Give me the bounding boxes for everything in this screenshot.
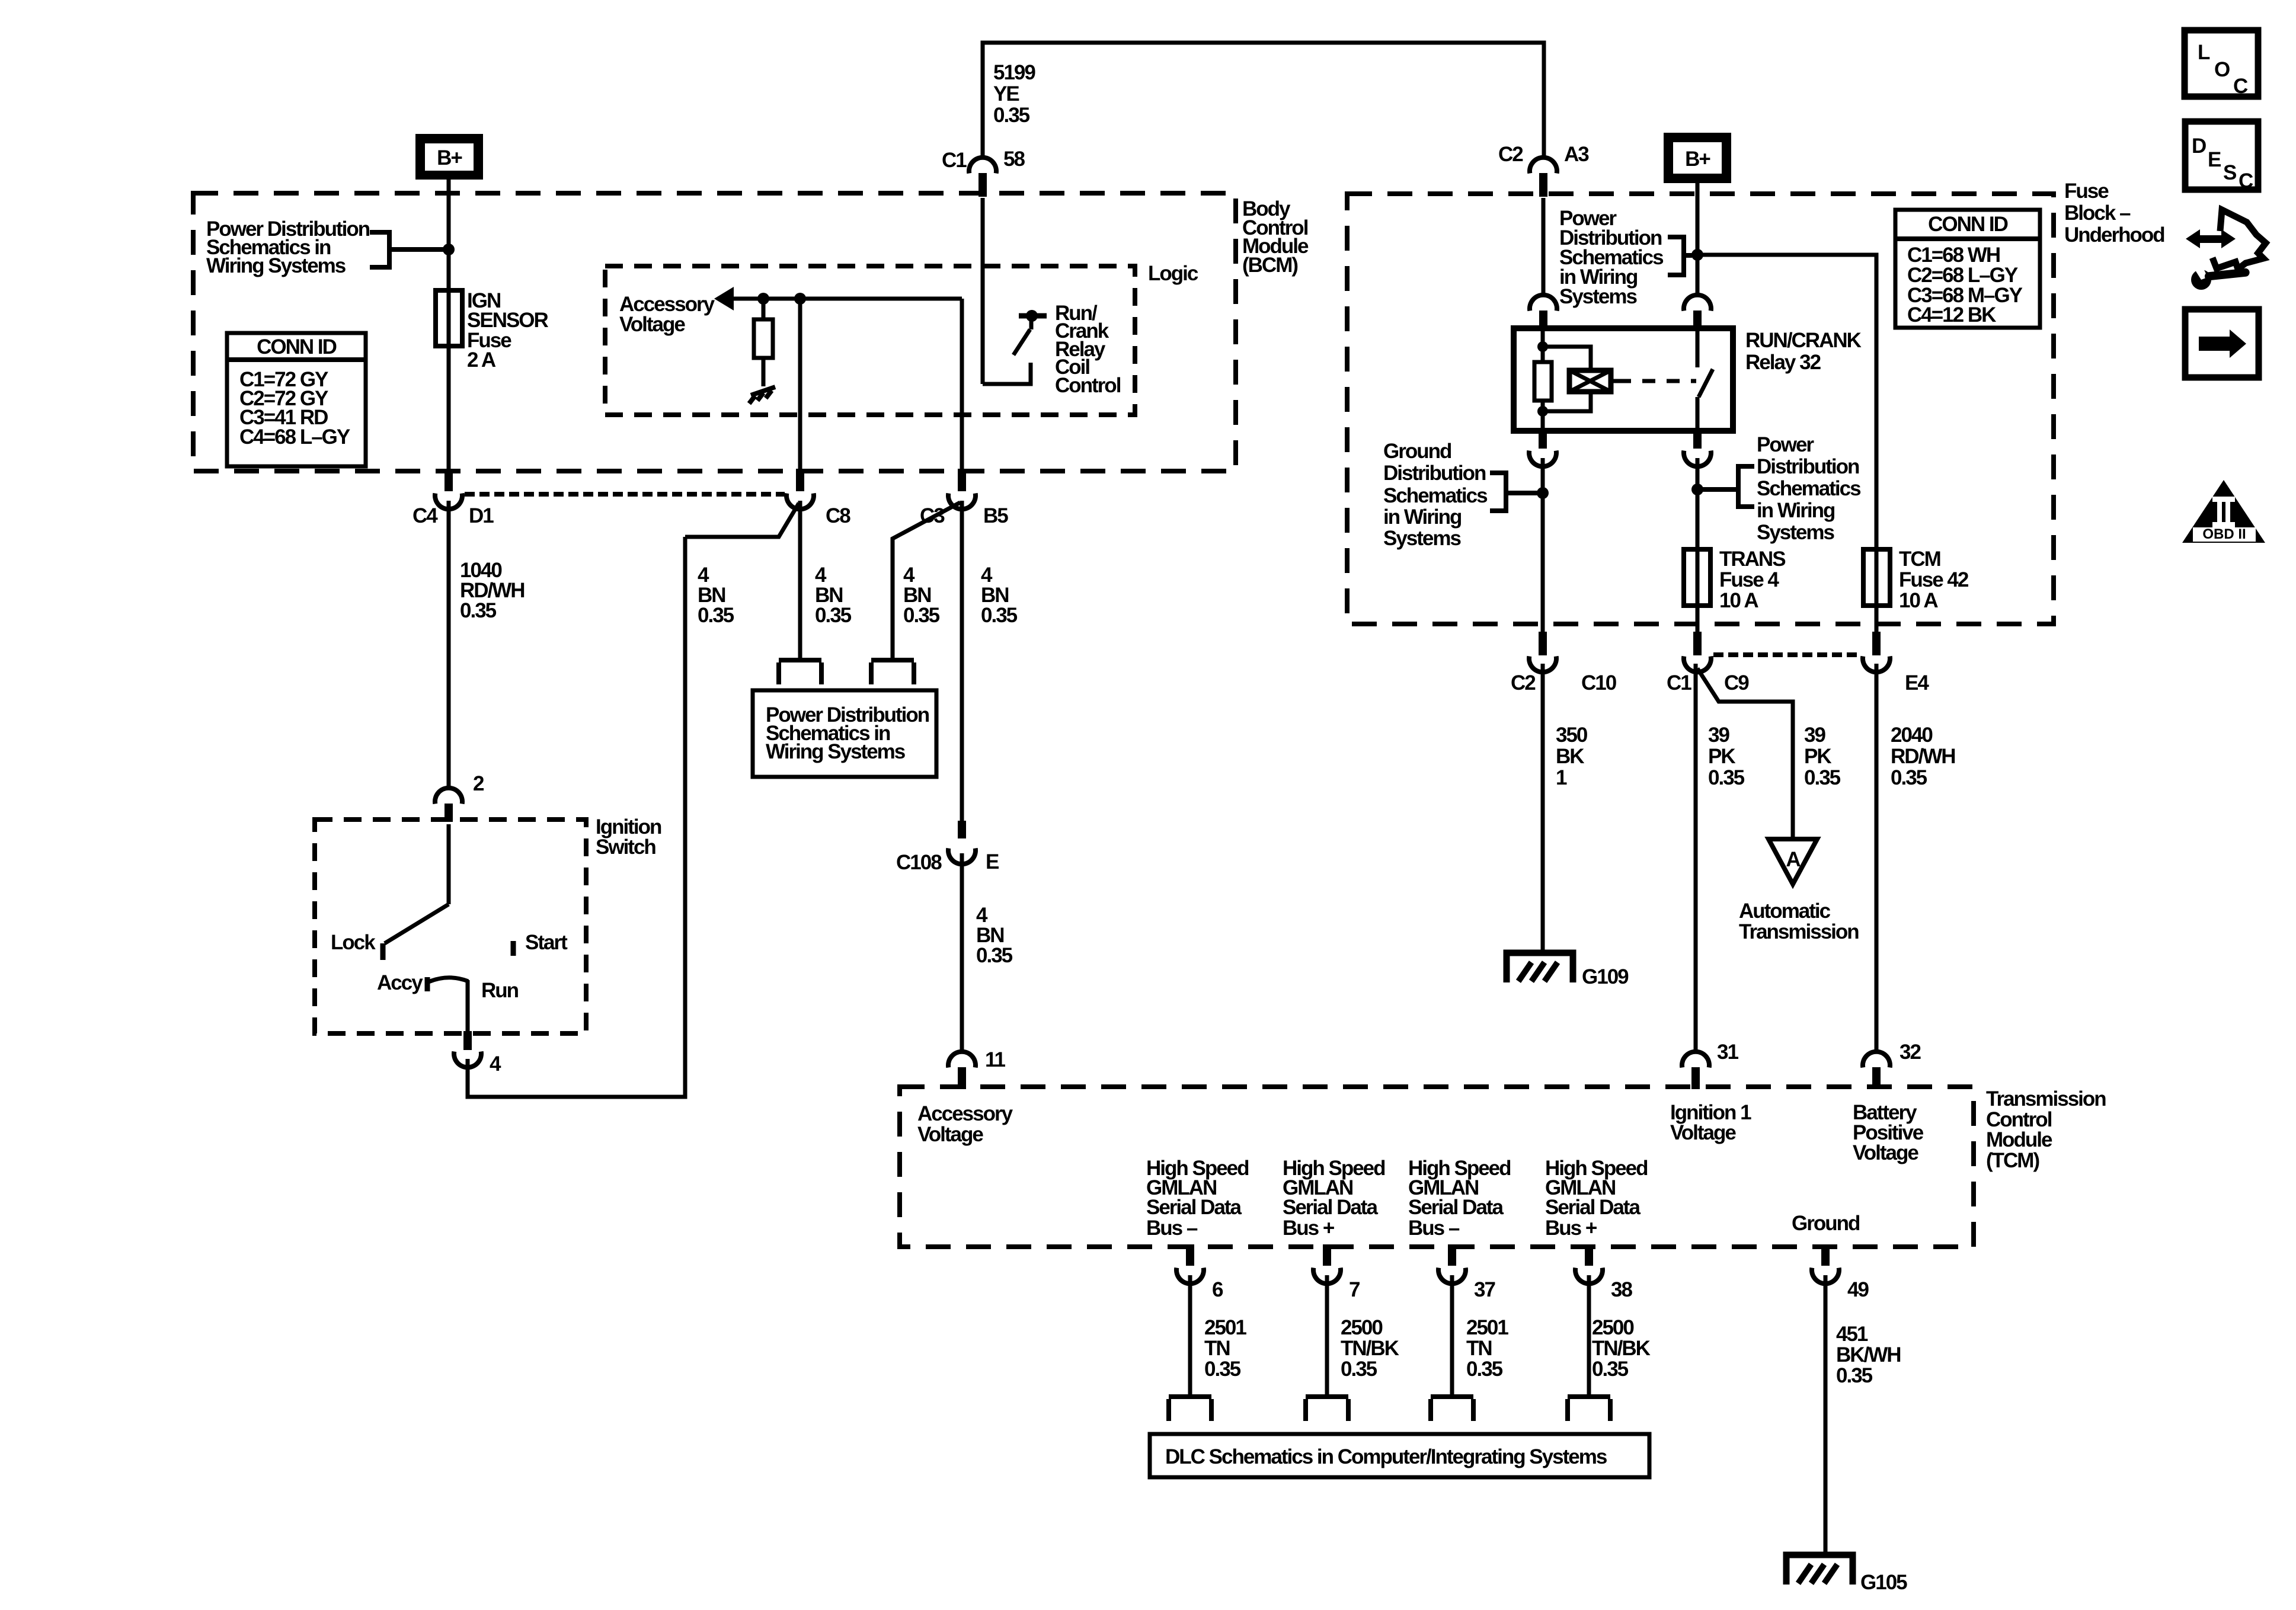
- table: CONN ID (BCM): [227, 333, 366, 466]
- svg-text:Voltage: Voltage: [1670, 1121, 1736, 1144]
- wire C2/A3 to relay coil: [1542, 198, 1546, 295]
- relay switch: [1697, 328, 1713, 431]
- connector C1/58 (BCM top): [942, 148, 1025, 197]
- connector relay switch out (bottom right): [1684, 428, 1711, 466]
- fuse: IGN SENSOR Fuse 2 A: [436, 289, 549, 372]
- connector 7 (TCM bottom): [1313, 1244, 1360, 1301]
- svg-text:Lock: Lock: [331, 931, 376, 954]
- fuse block box: Fuse Block - Underhood: [1347, 194, 2054, 624]
- svg-text:CONN ID: CONN ID: [1928, 213, 2008, 236]
- svg-text:RD/WH: RD/WH: [1891, 745, 1955, 768]
- note box: Power Distribution Schematics in Wiring Systems: [753, 690, 936, 777]
- svg-text:0.35: 0.35: [1341, 1358, 1377, 1381]
- svg-text:0.35: 0.35: [976, 944, 1013, 967]
- svg-text:Bus –: Bus –: [1408, 1217, 1460, 1240]
- svg-text:in Wiring: in Wiring: [1757, 499, 1835, 522]
- svg-text:E4: E4: [1905, 671, 1929, 694]
- svg-text:Bus –: Bus –: [1146, 1217, 1198, 1240]
- logic box (BCM Logic): [605, 266, 1135, 415]
- svg-text:39: 39: [1804, 724, 1825, 747]
- contact Accy: [425, 977, 430, 991]
- node accessory/resistor: [757, 293, 769, 305]
- svg-text:2 A: 2 A: [467, 348, 496, 372]
- svg-text:0.35: 0.35: [1836, 1364, 1873, 1387]
- connector C108/E (inline): [896, 821, 999, 874]
- fuse TCM Fuse 42 10 A: [1863, 548, 1969, 612]
- svg-text:S: S: [2223, 161, 2236, 184]
- wire 2500 TN/BK 0.35 (bus plus): [1327, 1275, 1399, 1397]
- svg-text:7: 7: [1349, 1278, 1360, 1301]
- svg-text:451: 451: [1836, 1323, 1868, 1346]
- connector 37 (TCM bottom): [1438, 1244, 1495, 1301]
- terminators GMLAN wires: [1169, 1397, 1211, 1421]
- svg-text:C10: C10: [1581, 671, 1617, 694]
- wire ignition feed into switch: [447, 824, 451, 904]
- label BCM: [1242, 197, 1309, 277]
- pin labels TCM: [917, 1101, 1924, 1235]
- labels High Speed GMLAN Serial Data Bus: [1146, 1157, 1648, 1240]
- wire B+ right down: [1696, 183, 1700, 295]
- svg-text:in Wiring: in Wiring: [1383, 505, 1462, 529]
- svg-text:Fuse 4: Fuse 4: [1719, 568, 1779, 591]
- wire 39 PK 0.35 branch to automatic transmission: [1697, 668, 1841, 838]
- connector C3/B5 (BCM bottom): [920, 469, 1008, 527]
- svg-text:350: 350: [1556, 724, 1588, 747]
- connector E4 (fuse block bottom): [1863, 632, 1929, 694]
- svg-text:BK/WH: BK/WH: [1836, 1343, 1901, 1366]
- wire B+ to TCM fuse: [1697, 255, 1876, 632]
- svg-text:O: O: [2214, 58, 2230, 81]
- wire relay switch to TRANS fuse: [1696, 458, 1700, 632]
- svg-text:C4: C4: [412, 504, 438, 527]
- svg-text:Systems: Systems: [1757, 521, 1835, 544]
- svg-text:Relay 32: Relay 32: [1745, 351, 1821, 374]
- svg-text:0.35: 0.35: [903, 604, 940, 627]
- connector row dotted line C4 to C8: [465, 492, 785, 497]
- svg-text:0.35: 0.35: [1466, 1358, 1503, 1381]
- svg-text:OBD II: OBD II: [2202, 526, 2246, 542]
- wire 2501 TN 0.35 (bus minus): [1190, 1275, 1246, 1397]
- svg-text:TCM: TCM: [1899, 548, 1940, 571]
- svg-text:Fuse: Fuse: [2064, 180, 2109, 203]
- svg-text:C1: C1: [942, 149, 967, 172]
- svg-text:Accy: Accy: [377, 971, 423, 994]
- svg-text:Wiring Systems: Wiring Systems: [766, 740, 906, 763]
- svg-text:5199: 5199: [993, 61, 1035, 84]
- connector C2/A3 (fuse block top): [1498, 143, 1589, 197]
- terminator C8 wire: [779, 660, 821, 684]
- svg-text:2501: 2501: [1204, 1316, 1246, 1339]
- icon OBD II: [2182, 480, 2265, 543]
- icon DESC: [2185, 121, 2258, 193]
- svg-text:Voltage: Voltage: [619, 313, 685, 336]
- svg-text:C9: C9: [1724, 671, 1749, 694]
- svg-text:D: D: [2192, 135, 2206, 158]
- wire B5 diagonal branch, 4 BN 0.35: [893, 502, 960, 660]
- off-page triangle A: Automatic Transmission: [1739, 839, 1859, 943]
- svg-text:10 A: 10 A: [1719, 589, 1758, 612]
- node: B+ feed junction: [443, 244, 455, 255]
- note: Power Distribution Schematics in Wiring Systems (BCM B+ feed): [206, 217, 443, 277]
- svg-text:10 A: 10 A: [1899, 589, 1938, 612]
- fuse TRANS Fuse 4 10 A: [1684, 548, 1785, 612]
- svg-text:TN: TN: [1204, 1337, 1230, 1360]
- wire B+ to IGN SENSOR fuse: [447, 180, 451, 469]
- svg-text:Bus +: Bus +: [1545, 1217, 1597, 1240]
- connector 31 (TCM): [1682, 1041, 1738, 1089]
- contact Start: [511, 941, 516, 956]
- wire Run to connector 4: [466, 980, 470, 1031]
- ground (logic): [749, 387, 775, 404]
- wire 2040 RD/WH 0.35: [1876, 664, 1955, 1051]
- svg-text:Systems: Systems: [1383, 527, 1462, 550]
- module box: Transmission Control Module (TCM): [900, 1087, 1974, 1247]
- table: CONN ID (fuse block): [1895, 210, 2040, 328]
- svg-text:C8: C8: [826, 504, 850, 527]
- ground G105: [1786, 1555, 1907, 1594]
- svg-text:B5: B5: [983, 504, 1008, 527]
- svg-text:C1: C1: [1667, 671, 1691, 694]
- svg-text:Voltage: Voltage: [1853, 1141, 1918, 1164]
- svg-text:Ground: Ground: [1383, 440, 1451, 463]
- svg-text:E: E: [986, 850, 999, 873]
- svg-text:Automatic: Automatic: [1739, 900, 1831, 923]
- svg-text:2500: 2500: [1592, 1316, 1634, 1339]
- svg-text:38: 38: [1611, 1278, 1632, 1301]
- svg-text:Switch: Switch: [596, 836, 655, 859]
- svg-text:0.35: 0.35: [1891, 766, 1927, 789]
- connector 2 (Ignition Switch): [435, 772, 484, 822]
- wire logic to B5: [960, 299, 964, 469]
- note box: DLC Schematics in Computer/Integrating Systems: [1150, 1434, 1649, 1477]
- wire C8 diagonal to accessory run: [685, 503, 799, 537]
- node power distribution (switched feed): [1691, 484, 1703, 495]
- svg-text:0.35: 0.35: [981, 604, 1018, 627]
- svg-text:YE: YE: [993, 82, 1019, 105]
- connector relay coil out (bottom left): [1529, 428, 1556, 466]
- svg-text:Wiring Systems: Wiring Systems: [206, 254, 346, 277]
- node B+/TCM fuse branch: [1691, 249, 1703, 261]
- connector C8 (BCM bottom): [786, 469, 850, 527]
- connector 32 (TCM): [1863, 1041, 1921, 1089]
- connector C1/C9 (fuse block bottom): [1667, 632, 1749, 694]
- svg-text:E: E: [2208, 148, 2221, 171]
- module box: Body Control Module (BCM): [193, 193, 1236, 471]
- svg-text:11: 11: [985, 1048, 1006, 1071]
- svg-text:C: C: [2239, 169, 2253, 193]
- svg-text:TRANS: TRANS: [1719, 548, 1785, 571]
- svg-text:32: 32: [1900, 1041, 1921, 1064]
- wire 1040 RD/WH 0.35: [449, 501, 525, 788]
- label 4 BN 0.35 (accessory run wire): [698, 564, 734, 627]
- wire logic to C8: [798, 299, 802, 469]
- connector C4/D1 (BCM): [412, 469, 494, 527]
- wire C108 to TCM pin 11, 4 BN 0.35: [962, 853, 1013, 1051]
- svg-text:39: 39: [1708, 724, 1729, 747]
- svg-text:49: 49: [1847, 1278, 1869, 1301]
- svg-text:0.35: 0.35: [1204, 1358, 1241, 1381]
- svg-text:Transmission: Transmission: [1986, 1087, 2106, 1110]
- svg-text:C2: C2: [1511, 671, 1536, 694]
- svg-text:2500: 2500: [1341, 1316, 1383, 1339]
- svg-text:Serial Data: Serial Data: [1146, 1196, 1242, 1219]
- connector relay switch pin (top right): [1684, 295, 1711, 328]
- svg-text:(BCM): (BCM): [1242, 254, 1297, 277]
- switch: Run/Crank Relay Coil Control: [983, 198, 1121, 397]
- svg-text:0.35: 0.35: [993, 104, 1030, 127]
- svg-text:Transmission: Transmission: [1739, 920, 1859, 943]
- connector row dotted line C1/C9 to E4: [1713, 652, 1861, 657]
- svg-text:TN: TN: [1466, 1337, 1492, 1360]
- icon LOC: [2185, 30, 2258, 98]
- svg-text:Serial Data: Serial Data: [1408, 1196, 1504, 1219]
- connector 38 (TCM bottom): [1575, 1244, 1632, 1301]
- svg-text:PK: PK: [1708, 745, 1735, 768]
- svg-text:(TCM): (TCM): [1986, 1149, 2039, 1172]
- note: Power Distribution Schematics in Wiring Systems (B+ feed): [1559, 207, 1692, 308]
- wire 350 BK 1: [1543, 664, 1588, 953]
- wire 5199 YE 0.35 top run: [983, 43, 1544, 157]
- svg-text:Control: Control: [1055, 374, 1121, 397]
- svg-text:G109: G109: [1582, 965, 1629, 988]
- connector 49 (TCM ground): [1812, 1244, 1869, 1301]
- svg-text:0.35: 0.35: [1592, 1358, 1629, 1381]
- icon arrow right: [2185, 309, 2259, 377]
- svg-text:Run: Run: [481, 979, 519, 1002]
- svg-text:Serial Data: Serial Data: [1283, 1196, 1378, 1219]
- relay box: RUN/CRANK Relay 32: [1514, 328, 1862, 431]
- terminator B5 branch: [871, 660, 914, 684]
- svg-text:Distribution: Distribution: [1757, 455, 1859, 478]
- contact Run and rotor arc: [428, 978, 468, 982]
- svg-text:Start: Start: [525, 931, 568, 954]
- node accessory/C8: [794, 293, 806, 305]
- svg-text:Power: Power: [1757, 433, 1814, 456]
- svg-text:Systems: Systems: [1559, 285, 1638, 308]
- note: Power Distribution Schematics in Wiring Systems (switched feed): [1697, 433, 1861, 544]
- wire accessory voltage from pin 4 to C8 branch: [468, 537, 685, 1097]
- svg-text:37: 37: [1474, 1278, 1495, 1301]
- svg-text:0.35: 0.35: [698, 604, 734, 627]
- svg-text:Schematics: Schematics: [1757, 477, 1861, 500]
- svg-text:1: 1: [1556, 766, 1567, 789]
- svg-text:G105: G105: [1860, 1571, 1907, 1594]
- svg-text:0.35: 0.35: [460, 599, 497, 622]
- resistor (logic pull-down): [754, 299, 773, 386]
- svg-text:A3: A3: [1564, 143, 1589, 166]
- svg-text:0.35: 0.35: [1804, 766, 1841, 789]
- svg-text:58: 58: [1003, 148, 1025, 171]
- svg-text:C: C: [2233, 75, 2248, 98]
- svg-text:L: L: [2198, 41, 2210, 64]
- power symbol B+ (right): [1664, 133, 1731, 183]
- connector C2/C10 (fuse block bottom): [1511, 632, 1617, 694]
- wire 451 BK/WH 0.35: [1825, 1275, 1901, 1555]
- svg-text:Ground: Ground: [1792, 1212, 1860, 1235]
- wire 2501 TN 0.35 (bus minus 2): [1452, 1275, 1508, 1397]
- svg-text:4: 4: [490, 1052, 501, 1076]
- svg-text:0.35: 0.35: [815, 604, 852, 627]
- contact Lock: [380, 943, 386, 960]
- svg-text:Fuse 42: Fuse 42: [1899, 568, 1969, 591]
- svg-text:D1: D1: [469, 504, 494, 527]
- svg-text:RUN/CRANK: RUN/CRANK: [1745, 329, 1862, 352]
- svg-text:C2: C2: [1498, 143, 1523, 166]
- svg-text:Logic: Logic: [1148, 262, 1198, 285]
- wire C8 to power distribution note, 4 BN 0.35: [800, 501, 852, 660]
- svg-text:BK: BK: [1556, 745, 1584, 768]
- svg-text:TN/BK: TN/BK: [1592, 1337, 1651, 1360]
- svg-text:Module: Module: [1986, 1128, 2052, 1151]
- connector relay coil pin (top left): [1530, 295, 1557, 328]
- svg-text:PK: PK: [1804, 745, 1831, 768]
- wire 39 PK 0.35 (ignition 1): [1696, 664, 1745, 1051]
- svg-text:Distribution: Distribution: [1383, 462, 1486, 485]
- svg-text:DLC Schematics in Computer/Int: DLC Schematics in Computer/Integrating S…: [1165, 1445, 1607, 1468]
- svg-text:Voltage: Voltage: [917, 1123, 983, 1146]
- svg-text:2501: 2501: [1466, 1316, 1508, 1339]
- svg-text:CONN ID: CONN ID: [257, 335, 337, 359]
- node ground distribution: [1537, 487, 1549, 499]
- power symbol B+ (left): [415, 134, 483, 180]
- switch box: Ignition Switch: [315, 820, 586, 1033]
- svg-text:C108: C108: [896, 851, 942, 874]
- svg-text:C4=68 L–GY: C4=68 L–GY: [239, 425, 350, 449]
- svg-text:C4=12 BK: C4=12 BK: [1907, 303, 1996, 327]
- connector 4 (Ignition Switch output): [454, 1031, 501, 1076]
- svg-text:Bus +: Bus +: [1283, 1217, 1335, 1240]
- svg-text:Schematics: Schematics: [1383, 484, 1488, 507]
- svg-text:Accessory: Accessory: [917, 1102, 1013, 1125]
- wire relay coil to C2/C10: [1541, 458, 1545, 632]
- wire B5 to C108, 4 BN 0.35: [962, 501, 1018, 822]
- svg-text:Block –: Block –: [2064, 201, 2131, 225]
- svg-text:0.35: 0.35: [1708, 766, 1745, 789]
- svg-text:Serial Data: Serial Data: [1545, 1196, 1641, 1219]
- svg-text:6: 6: [1212, 1278, 1223, 1301]
- switch blade (ignition): [385, 904, 449, 943]
- svg-text:A: A: [1786, 848, 1801, 871]
- connector 11 (TCM): [948, 1048, 1006, 1089]
- icon connector service (arrows and wrench): [2186, 210, 2266, 290]
- wire 2500 TN/BK 0.35 (bus plus 2): [1589, 1275, 1651, 1397]
- connector 6 (TCM bottom): [1176, 1244, 1223, 1301]
- relay coil circuit: [1534, 328, 1696, 431]
- svg-text:TN/BK: TN/BK: [1341, 1337, 1399, 1360]
- svg-text:2040: 2040: [1891, 724, 1933, 747]
- note: Ground Distribution Schematics in Wiring Systems: [1383, 440, 1539, 550]
- accessory voltage arrow and bus (logic): [619, 287, 962, 336]
- ground G109: [1507, 953, 1629, 988]
- svg-text:Underhood: Underhood: [2064, 223, 2164, 247]
- svg-text:2: 2: [473, 772, 484, 795]
- svg-text:B+: B+: [1685, 148, 1710, 171]
- svg-text:B+: B+: [437, 146, 462, 169]
- svg-text:31: 31: [1717, 1041, 1738, 1064]
